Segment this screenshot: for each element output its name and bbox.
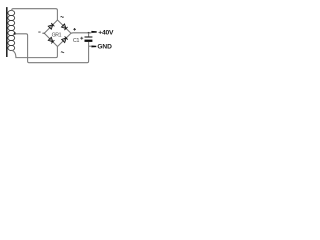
wire: secondary top terminal to bridge AC top [12, 9, 58, 20]
svg-text:+40V: +40V [98, 30, 114, 37]
transformer T1 secondary winding [8, 10, 15, 50]
terminal arrow GND [91, 46, 96, 48]
diode V4 lower-right (AC bottom toward plus vertex) [62, 36, 68, 42]
wire: center tap to GND rail and up to capacitor bottom [15, 34, 89, 63]
diode V1 upper-left (minus vertex toward AC top) [48, 23, 54, 29]
capacitor C1 bottom plate (electrolytic block) [85, 40, 93, 42]
label ~ at AC top [61, 16, 64, 17]
label + at plus vertex [73, 28, 76, 31]
wire: secondary bottom terminal to bridge AC bottom [12, 47, 58, 58]
svg-text:C1: C1 [73, 38, 79, 44]
node: junction plus rail / capacitor [88, 32, 90, 34]
svg-text:GND: GND [97, 43, 112, 50]
svg-text:GR1: GR1 [52, 32, 62, 38]
bridge rectifier GR1 diamond [44, 20, 71, 47]
transformer T1 core bar [6, 7, 8, 57]
label ~ at AC bottom [61, 52, 64, 53]
wire: GND stub from cap line to arrow [89, 45, 92, 47]
label + capacitor polarity [80, 37, 83, 40]
wire: capacitor top stub [88, 33, 90, 37]
wire stub at minus vertex [42, 32, 44, 34]
label - at minus vertex [38, 31, 40, 34]
diode V3 lower-left (minus vertex toward AC bottom) [48, 37, 54, 43]
node: center tap junction [14, 32, 16, 34]
wire: plus rail from bridge to +40V arrow [71, 32, 91, 34]
terminal arrow +40V [91, 31, 96, 33]
capacitor C1 top plate [85, 36, 93, 38]
diode V2 upper-right (AC top toward plus vertex) [62, 24, 68, 30]
